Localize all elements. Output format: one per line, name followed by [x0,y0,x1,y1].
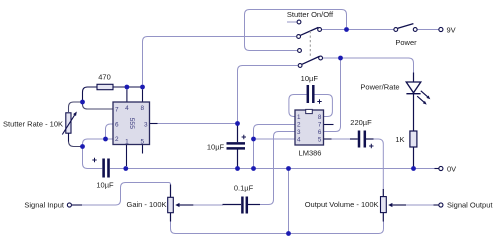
svg-text:Output Volume - 100K: Output Volume - 100K [305,200,379,209]
svg-text:555: 555 [128,118,135,130]
svg-text:Signal Input: Signal Input [24,200,65,209]
svg-text:6: 6 [318,129,322,136]
svg-text:7: 7 [115,107,119,114]
svg-text:2: 2 [297,121,301,128]
svg-text:4: 4 [125,105,129,112]
svg-text:220µF: 220µF [350,118,372,127]
svg-text:4: 4 [297,137,301,144]
svg-text:LM386: LM386 [299,148,322,157]
svg-text:2: 2 [115,136,119,143]
svg-text:Power/Rate: Power/Rate [360,83,399,92]
svg-text:470: 470 [98,72,111,81]
svg-text:5: 5 [318,137,322,144]
svg-text:Gain - 100K: Gain - 100K [127,200,167,209]
svg-text:1K: 1K [395,135,404,144]
svg-text:Stutter Rate - 10K: Stutter Rate - 10K [3,119,63,128]
svg-text:6: 6 [115,121,119,128]
svg-text:1: 1 [125,138,129,145]
svg-text:Signal Output: Signal Output [447,200,493,209]
svg-text:5: 5 [141,138,145,145]
svg-text:3: 3 [297,129,301,136]
svg-text:Stutter On/Off: Stutter On/Off [287,10,334,19]
svg-text:0.1µF: 0.1µF [234,184,254,193]
svg-text:8: 8 [141,105,145,112]
svg-text:Power: Power [395,38,417,47]
svg-text:9V: 9V [447,26,456,35]
svg-text:3: 3 [144,121,148,128]
svg-text:10µF: 10µF [207,142,225,151]
svg-text:1: 1 [297,114,301,121]
svg-text:10µF: 10µF [301,74,319,83]
svg-text:0V: 0V [447,165,456,174]
svg-text:7: 7 [318,121,322,128]
svg-text:8: 8 [318,114,322,121]
svg-text:10µF: 10µF [96,180,114,189]
